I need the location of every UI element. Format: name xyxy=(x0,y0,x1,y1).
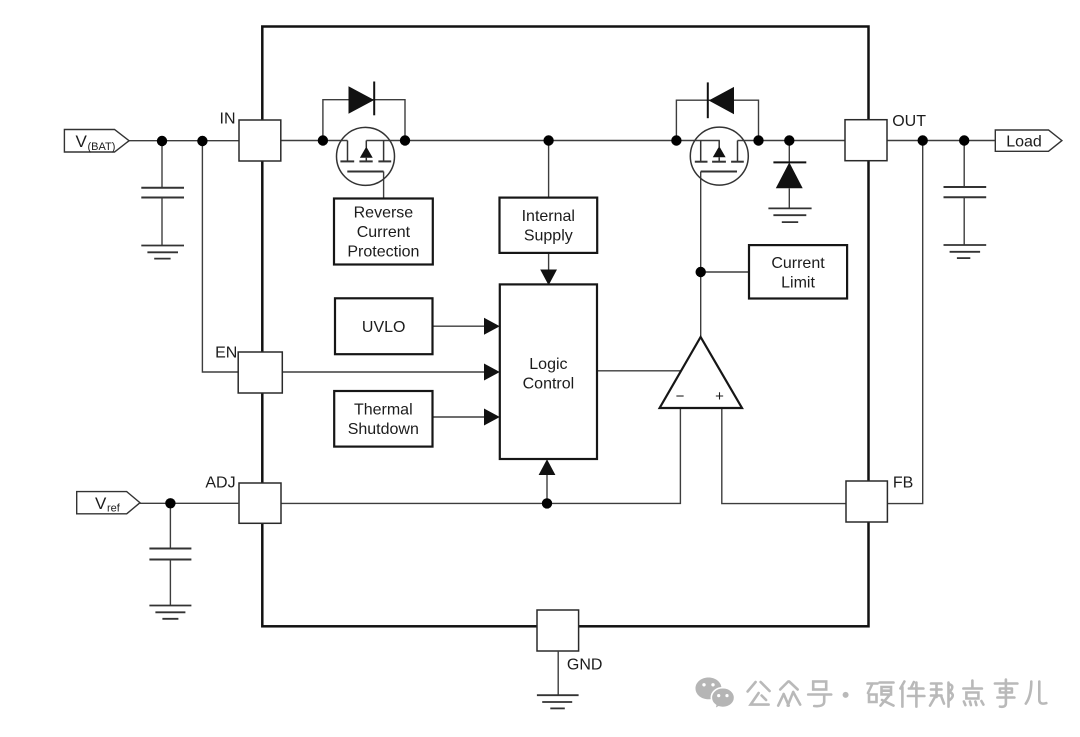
svg-text:EN: EN xyxy=(215,345,237,362)
dot separator xyxy=(843,692,849,698)
wire: Q1 gate to reverse current protection xyxy=(383,172,385,199)
watermark wechat icon xyxy=(696,678,735,710)
wire: Q1 drain rail to Q2 xyxy=(366,140,720,142)
ying (hard) xyxy=(868,684,878,703)
pin EN xyxy=(215,345,282,393)
svg-text:Shutdown: Shutdown xyxy=(348,421,419,438)
na xyxy=(930,684,944,706)
svg-text:FB: FB xyxy=(893,474,913,491)
svg-text:Control: Control xyxy=(523,376,575,393)
body diode D2 of Q2 xyxy=(676,82,758,140)
wire: Vref to ADJ xyxy=(140,502,239,504)
svg-text:OUT: OUT xyxy=(892,113,926,130)
watermark text xyxy=(748,680,1047,707)
wire: Q2 drain rail to OUT xyxy=(738,140,846,142)
capacitor C1 (input) xyxy=(141,141,184,259)
MOSFET Q1 xyxy=(337,127,395,185)
flag Load xyxy=(995,130,1062,151)
pin OUT xyxy=(845,113,926,161)
jian xyxy=(900,682,904,707)
wire: ADJ line to comparator minus xyxy=(281,409,680,503)
wire: internal supply tap xyxy=(548,141,550,199)
IC boundary box xyxy=(262,27,868,627)
block: Thermal Shutdown xyxy=(334,391,432,447)
block: UVLO xyxy=(335,298,433,354)
flag Vref xyxy=(77,492,140,515)
body diode D1 of Q1 xyxy=(323,82,405,141)
wire: IN to Q1 source xyxy=(281,140,348,142)
wire: OUT feedback down to FB xyxy=(888,141,923,504)
wire: ADJ tap up to logic control (arrow) xyxy=(539,459,556,503)
hao xyxy=(813,682,826,690)
wire: input rail V(BAT) to IN xyxy=(129,140,239,142)
svg-text:Current: Current xyxy=(357,224,411,241)
er xyxy=(1026,682,1047,704)
svg-text:Limit: Limit xyxy=(781,275,815,292)
svg-text:UVLO: UVLO xyxy=(362,319,406,336)
block: Current Limit xyxy=(749,245,847,298)
capacitor C2 (output) xyxy=(944,141,987,259)
dian xyxy=(963,681,982,699)
wire: Q2 gate to current limit node and comparator output xyxy=(700,172,702,338)
svg-text:Protection: Protection xyxy=(347,244,419,261)
svg-text:Supply: Supply xyxy=(524,228,573,245)
ground below GND pin xyxy=(537,651,579,708)
svg-text:Current: Current xyxy=(771,255,825,272)
wire: EN to logic control (arrow) xyxy=(283,364,500,381)
wire: thermal shutdown to logic control (arrow) xyxy=(433,409,500,426)
pin IN xyxy=(220,111,281,162)
svg-text:GND: GND xyxy=(567,657,603,674)
svg-text:Internal: Internal xyxy=(522,208,575,225)
gong xyxy=(748,682,770,692)
block: Reverse Current Protection xyxy=(334,199,433,265)
svg-text:Logic: Logic xyxy=(529,356,567,373)
wire: internal supply to logic control (arrow) xyxy=(540,253,557,285)
shi xyxy=(995,680,1018,707)
svg-text:V: V xyxy=(95,494,107,513)
wire: comparator plus to FB xyxy=(722,409,846,504)
wire: logic control output to comparator xyxy=(597,370,682,372)
pin FB xyxy=(846,474,913,522)
svg-text:−: − xyxy=(676,388,685,405)
svg-text:Load: Load xyxy=(1006,134,1042,151)
wire: current limit tap xyxy=(701,271,749,273)
block: Internal Supply xyxy=(500,198,598,253)
zhong xyxy=(780,682,798,690)
block: Logic Control xyxy=(500,284,597,459)
svg-text:IN: IN xyxy=(220,111,236,128)
svg-text:+: + xyxy=(715,388,724,405)
wire: EN branch vertical xyxy=(202,141,238,372)
svg-text:Reverse: Reverse xyxy=(354,205,414,222)
diode D3 to ground at output xyxy=(768,141,811,223)
svg-text:(BAT): (BAT) xyxy=(88,141,116,153)
MOSFET Q2 xyxy=(690,127,748,185)
svg-text:Thermal: Thermal xyxy=(354,402,413,419)
flag V(BAT) xyxy=(64,130,129,154)
pin ADJ xyxy=(205,475,281,524)
op-amp comparator U1 xyxy=(660,337,742,408)
svg-text:V: V xyxy=(76,132,88,151)
wire: UVLO to logic control (arrow) xyxy=(433,318,500,335)
wire: OUT to Load xyxy=(887,140,996,142)
svg-text:ref: ref xyxy=(107,503,121,515)
svg-text:ADJ: ADJ xyxy=(205,475,235,492)
pin GND xyxy=(537,610,602,674)
capacitor C3 (Vref) xyxy=(149,503,191,619)
